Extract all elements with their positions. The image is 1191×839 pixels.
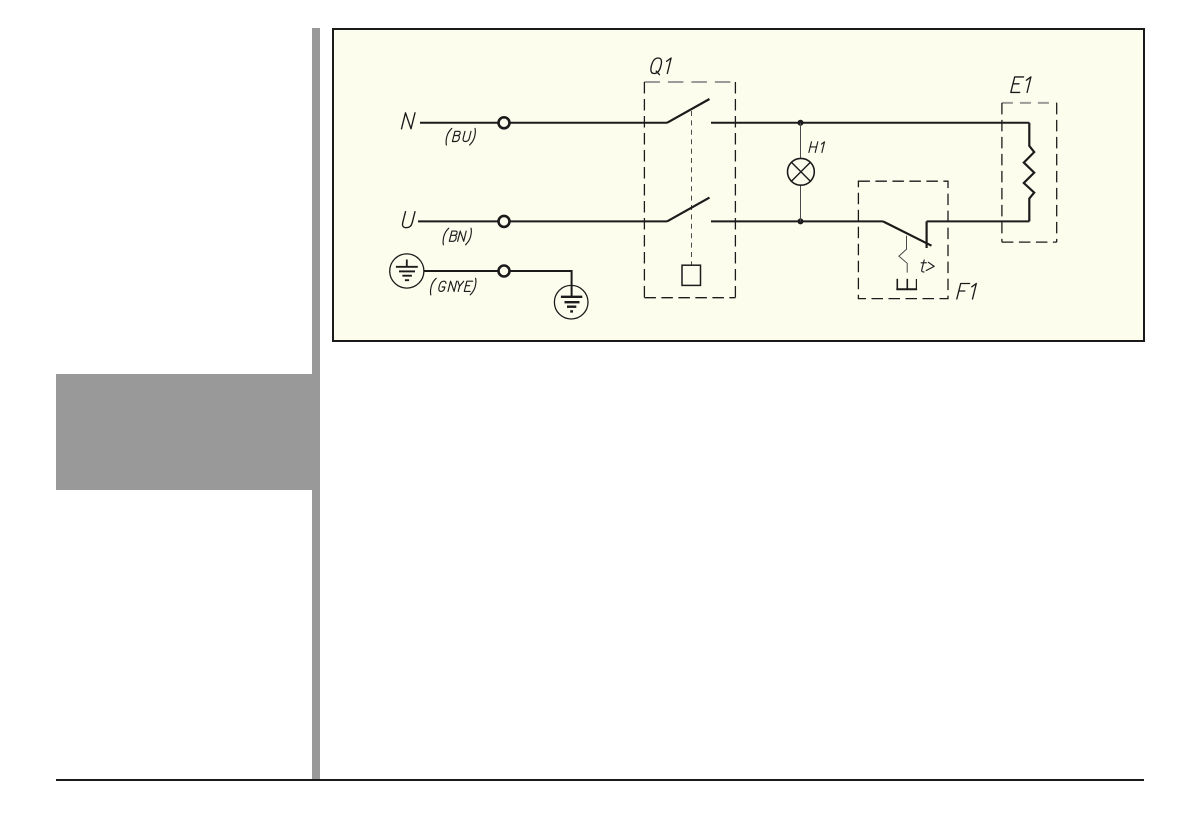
node junction top <box>798 120 804 126</box>
terminal X1:PE <box>499 266 510 277</box>
label U <box>402 212 415 228</box>
wire N left <box>420 122 667 124</box>
F1 thermal element cup <box>896 279 917 290</box>
terminal X1:N <box>499 117 510 128</box>
label Q1 <box>651 58 671 75</box>
terminal X1:U <box>499 216 510 227</box>
F1 thermal sensor zigzag <box>899 236 907 273</box>
wire F1 to E1 <box>927 220 1030 222</box>
PE symbol circle <box>390 254 424 288</box>
label t> <box>921 260 934 272</box>
label N <box>402 113 416 129</box>
Q1 pole 1 blade <box>667 99 710 123</box>
label (GNYE) <box>430 278 475 295</box>
sidebar gray vertical bar <box>312 28 320 780</box>
F1 fixed contact <box>925 221 927 248</box>
gray rectangle block <box>56 374 320 490</box>
switch Q1 dashed box <box>644 81 735 83</box>
Q1 mechanical link dashed line <box>691 111 693 265</box>
label E1 <box>1011 77 1031 93</box>
label (BN) <box>443 228 471 245</box>
Q1 actuator square <box>682 265 701 285</box>
schematic panel <box>332 28 1145 342</box>
label F1 <box>957 284 977 300</box>
lamp H1 <box>788 123 815 222</box>
ground symbol <box>554 285 588 319</box>
footer rule line <box>56 779 1144 781</box>
resistor element E1 <box>1024 123 1034 222</box>
label H1 <box>809 142 825 153</box>
wire U right <box>711 220 883 222</box>
wire U left <box>418 220 667 222</box>
heater E1 dashed box <box>1002 102 1057 104</box>
Q1 pole 2 blade <box>667 198 710 222</box>
node junction bottom <box>798 218 804 224</box>
wire N right <box>711 122 1029 124</box>
wire PE <box>424 271 572 296</box>
F1 blade <box>883 221 932 245</box>
label (BU) <box>446 128 475 145</box>
thermal switch F1 dashed box <box>858 181 948 298</box>
